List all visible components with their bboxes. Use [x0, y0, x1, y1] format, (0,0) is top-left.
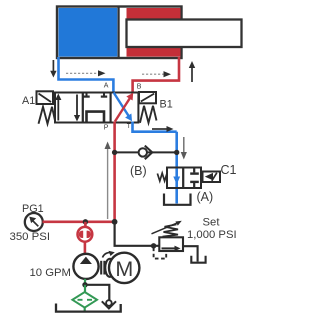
pump P1	[73, 254, 98, 279]
tank below C1	[164, 194, 191, 205]
svg-text:M: M	[115, 257, 133, 281]
wire blue down to C1	[175, 132, 178, 204]
wire red pump riser upper	[84, 222, 87, 228]
wire check valve line	[115, 151, 177, 153]
svg-text:10 GPM: 10 GPM	[30, 267, 71, 279]
node junction pump tee	[83, 219, 88, 224]
cylinder rod-side fluid (red)	[127, 8, 181, 57]
svg-text:(A): (A)	[197, 190, 214, 204]
wire red pressure line down	[113, 122, 116, 222]
svg-text:C1: C1	[221, 163, 237, 177]
relief pilot dashed line	[154, 248, 167, 259]
arrow up (rod side flow)	[189, 61, 195, 82]
C1 spring	[157, 173, 167, 181]
C1 pilot box	[203, 172, 221, 183]
filter stem bottom	[84, 308, 86, 312]
node suction junction	[82, 282, 87, 287]
C1 blue flow arrowhead	[173, 177, 180, 185]
filter F1	[72, 292, 97, 308]
arrow down (to C1 indicator)	[181, 137, 187, 160]
check valve B	[139, 146, 153, 160]
diffuser	[102, 300, 116, 308]
svg-text:A: A	[104, 83, 109, 90]
filter stem top	[84, 285, 86, 292]
wire red pump riser lower	[84, 242, 87, 255]
relief valve RV1 body	[159, 237, 183, 251]
wire black to relief valve	[115, 222, 160, 246]
flow meter (red circle with triangles)	[78, 227, 93, 242]
gauge PG1	[25, 213, 43, 231]
spring A1	[39, 107, 56, 124]
shaft coupling	[101, 259, 112, 277]
valve V1 body envelopes	[55, 93, 138, 123]
wire relief drain	[183, 246, 198, 261]
arrow right (T return flow)	[152, 126, 174, 132]
node junction pilot	[151, 243, 156, 248]
svg-text:P: P	[104, 125, 109, 132]
svg-text:350 PSI: 350 PSI	[10, 231, 51, 243]
arrow dashed right (rod side)	[142, 71, 171, 77]
C1 right envelope blocked symbols	[190, 169, 199, 188]
wire blue T return	[133, 122, 177, 132]
svg-text:PG1: PG1	[22, 203, 44, 215]
wire red gauge line	[43, 221, 115, 224]
node junction on pressure line	[112, 150, 117, 155]
center envelope P-T bridge	[87, 112, 105, 122]
valve active path blue A to T	[114, 93, 132, 122]
electric motor M1	[109, 253, 139, 283]
piston	[117, 8, 119, 58]
piston rod	[127, 20, 242, 48]
svg-text:1,000 PSI: 1,000 PSI	[187, 229, 237, 241]
arrow dashed right (cap side)	[66, 70, 106, 76]
svg-text:B: B	[137, 84, 142, 91]
solenoid A1	[37, 91, 54, 104]
tank below relief	[191, 256, 205, 263]
relief valve spring	[163, 224, 179, 236]
node junction on blue line	[174, 150, 179, 155]
rotation arrow	[103, 251, 115, 258]
center envelope blocked ports	[83, 94, 107, 97]
arrow up (pressure flow indicator)	[105, 142, 111, 220]
wire return to tank diffuser	[85, 285, 109, 301]
svg-text:Set: Set	[203, 216, 221, 228]
solenoid B1	[139, 92, 156, 103]
spring B1	[140, 106, 157, 123]
svg-text:A1: A1	[22, 95, 35, 107]
green suction stub	[84, 279, 86, 285]
left envelope arrows	[55, 94, 80, 122]
relief valve adjust arrow	[152, 221, 182, 234]
cylinder barrel	[57, 7, 182, 59]
wire red rod-side pipe	[133, 57, 179, 93]
main tank	[56, 304, 121, 312]
node junction relief tee	[112, 219, 118, 225]
svg-text:B1: B1	[160, 98, 173, 110]
cylinder cap-side fluid (blue)	[59, 8, 118, 57]
arrow down (cap side flow)	[50, 60, 56, 78]
valve active path red P to B	[115, 93, 133, 122]
svg-text:T: T	[127, 123, 131, 130]
wire blue cap-side pipe	[59, 57, 114, 93]
svg-text:(B): (B)	[130, 164, 147, 178]
valve C1 body	[167, 168, 201, 189]
